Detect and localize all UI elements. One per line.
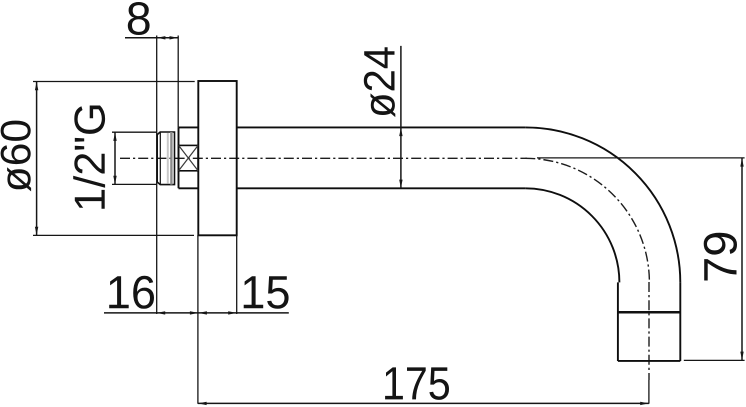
dimension o24 label: [364, 47, 396, 117]
collar behind flange: [179, 127, 199, 188]
dimension 8 right extension: [177, 36, 179, 128]
wall flange plate: [198, 81, 236, 235]
dimension 15 flange right extension: [236, 235, 238, 314]
dimension 79 arrows: [740, 158, 743, 360]
dimension 8 label: [128, 2, 150, 35]
dimension o60 line: [36, 82, 38, 236]
dimension o24 line: [400, 46, 402, 188]
dimension 175 label: [385, 367, 449, 400]
dimension 8 arrows: [157, 36, 178, 39]
centerline horizontal axis: [120, 157, 527, 159]
dimension o24 arrows: [399, 128, 402, 189]
bend inner arc: [525, 188, 619, 282]
dimension half inch line: [114, 132, 116, 184]
dimension 175 left extension: [197, 235, 199, 403]
dimension half inch label: [73, 106, 105, 209]
dimension o60 arrows: [35, 82, 38, 236]
dimension 175 line: [198, 402, 649, 404]
dimension 16 label: [109, 276, 154, 309]
outlet left edge: [617, 282, 619, 361]
dimension half inch top extension: [112, 131, 157, 133]
dimension 175 arrows: [198, 402, 649, 405]
aerator joint line: [618, 311, 680, 314]
dimension o60 bottom extension: [33, 234, 194, 236]
outlet bottom edge: [618, 360, 680, 362]
dimension 175 right extension: [648, 380, 650, 404]
spout tube top edge: [237, 126, 526, 128]
dimension 8 left extension: [156, 36, 158, 315]
dimension o60 label: [1, 121, 32, 192]
dimension 16 15 arrows: [157, 311, 237, 314]
outlet right edge: [679, 282, 681, 361]
dimension o60 top extension: [33, 81, 195, 83]
spout tube bottom edge: [237, 187, 526, 189]
dimension 79 top extension: [537, 157, 745, 159]
dimension 79 bottom extension: [684, 359, 745, 361]
dimension 79 line: [741, 158, 743, 360]
dimension 15 label: [244, 276, 289, 309]
centerline bend arc: [525, 158, 649, 282]
dimension 8 line: [125, 37, 179, 39]
dimension half inch arrows: [113, 132, 116, 184]
threaded nipple 1/2G: [157, 132, 174, 185]
bend outer arc: [525, 127, 680, 282]
dimension 79 label: [704, 233, 737, 281]
dimension half inch bottom extension: [112, 183, 157, 185]
cross-section x-box: [179, 145, 199, 170]
centerline outlet vertical axis: [648, 282, 650, 380]
dimension 16 15 line: [104, 312, 289, 314]
